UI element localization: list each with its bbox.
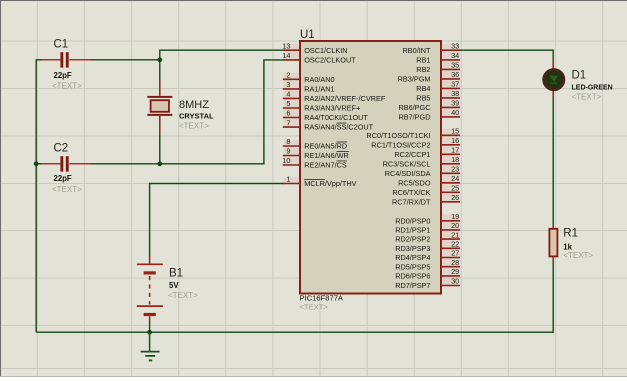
microcontroller U1 PIC16F877A xyxy=(300,29,442,312)
svg-text:38: 38 xyxy=(451,89,459,98)
svg-text:RD2/PSP2: RD2/PSP2 xyxy=(395,235,430,244)
svg-text:22: 22 xyxy=(451,240,459,249)
LED D1 xyxy=(544,62,613,101)
capacitor C2 xyxy=(42,143,91,194)
junction dot battery / rail / ground xyxy=(147,330,152,335)
svg-text:MCLR/Vpp/THV: MCLR/Vpp/THV xyxy=(304,179,356,188)
wire C2 left stub to left rail xyxy=(36,163,43,165)
junction dot crystal top / C1 xyxy=(157,57,162,62)
svg-text:15: 15 xyxy=(451,127,459,136)
svg-text:<TEXT>: <TEXT> xyxy=(52,82,82,91)
svg-text:D1: D1 xyxy=(572,70,587,82)
svg-text:26: 26 xyxy=(451,193,459,202)
svg-text:<TEXT>: <TEXT> xyxy=(300,303,329,312)
svg-text:RC4/SDI/SDA: RC4/SDI/SDA xyxy=(385,169,431,178)
U1 right pin 35 RB2 xyxy=(416,61,460,74)
U1 left pin 4 RA2/AN2/VREF-/CVREF xyxy=(283,90,386,103)
U1 right pin 33 RB0/INT xyxy=(403,41,460,54)
svg-text:RC7/RX/DT: RC7/RX/DT xyxy=(392,197,431,206)
svg-text:<TEXT>: <TEXT> xyxy=(572,92,602,101)
svg-text:RB0/INT: RB0/INT xyxy=(403,46,432,55)
wire MCLR pin1 to battery top xyxy=(150,184,284,257)
svg-text:RB6/PGC: RB6/PGC xyxy=(398,103,430,112)
U1 left pin 13 OSC1/CLKIN xyxy=(282,41,347,54)
battery B1 xyxy=(137,256,198,322)
svg-text:RE2/AN7/CS: RE2/AN7/CS xyxy=(304,161,347,170)
svg-text:37: 37 xyxy=(451,80,459,89)
svg-text:<TEXT>: <TEXT> xyxy=(52,185,82,194)
svg-text:RD0/PSP0: RD0/PSP0 xyxy=(395,216,430,225)
svg-text:LED-GREEN: LED-GREEN xyxy=(572,84,613,91)
svg-text:RC0/T1OSO/T1CKI: RC0/T1OSO/T1CKI xyxy=(366,131,430,140)
resistor R1 xyxy=(549,225,593,261)
U1 right pin 17 RC2/CCP1 xyxy=(394,146,460,159)
wire C2 right to OSC2 pin 14 xyxy=(90,60,284,164)
U1 left pin 8 RE0/AN5/RD xyxy=(283,137,347,150)
U1 right pin 16 RC1/T1OSI/CCP2 xyxy=(371,136,460,149)
svg-text:27: 27 xyxy=(451,249,459,258)
U1 left pin 2 RA0/AN0 xyxy=(283,71,335,84)
svg-text:RE0/AN5/RD: RE0/AN5/RD xyxy=(304,142,347,151)
svg-text:7: 7 xyxy=(286,118,290,127)
svg-text:23: 23 xyxy=(451,165,459,174)
wire crystal bottom lead xyxy=(159,133,161,164)
svg-text:33: 33 xyxy=(451,41,459,50)
svg-text:2: 2 xyxy=(286,71,290,80)
U1 right pin 23 RC4/SDI/SDA xyxy=(385,165,460,178)
svg-text:16: 16 xyxy=(451,136,459,145)
wire bottom ground rail xyxy=(36,261,553,332)
U1 right pin 36 RB3/PGM xyxy=(398,70,460,83)
svg-text:35: 35 xyxy=(451,61,459,70)
U1 right pin 15 RC0/T1OSO/T1CKI xyxy=(366,127,460,140)
svg-text:14: 14 xyxy=(282,51,290,60)
svg-text:<TEXT>: <TEXT> xyxy=(563,251,593,260)
svg-text:RC1/T1OSI/CCP2: RC1/T1OSI/CCP2 xyxy=(371,140,430,149)
U1 right pin 37 RB4 xyxy=(416,80,460,93)
svg-text:RB1: RB1 xyxy=(416,56,430,65)
U1 right pin 30 RD7/PSP7 xyxy=(395,277,460,290)
svg-text:RD4/PSP4: RD4/PSP4 xyxy=(395,253,430,262)
svg-text:RC2/CCP1: RC2/CCP1 xyxy=(394,150,430,159)
capacitor C1 xyxy=(42,39,91,91)
svg-text:3: 3 xyxy=(286,80,290,89)
svg-text:RB2: RB2 xyxy=(416,65,430,74)
svg-text:24: 24 xyxy=(451,174,459,183)
ground xyxy=(141,332,160,360)
svg-text:RC3/SCK/SCL: RC3/SCK/SCL xyxy=(383,159,431,168)
svg-text:C2: C2 xyxy=(54,143,69,155)
U1 left pin 10 RE2/AN7/CS xyxy=(282,156,347,169)
U1 right pin 34 RB1 xyxy=(416,51,460,64)
U1 left pin 1 MCLR/Vpp/THV xyxy=(283,175,357,188)
svg-text:10: 10 xyxy=(282,156,290,165)
svg-text:19: 19 xyxy=(451,212,459,221)
wire C1 right to crystal-top junction xyxy=(90,59,160,61)
U1 right pin 20 RD1/PSP1 xyxy=(395,221,460,234)
svg-text:RD3/PSP3: RD3/PSP3 xyxy=(395,244,430,253)
svg-text:RB3/PGM: RB3/PGM xyxy=(398,75,431,84)
U1 left pin 7 RA5/AN4/SS/C2OUT xyxy=(283,118,374,131)
svg-text:RD5/PSP5: RD5/PSP5 xyxy=(395,262,430,271)
svg-text:20: 20 xyxy=(451,221,459,230)
svg-text:5: 5 xyxy=(286,99,290,108)
svg-text:RA1/AN1: RA1/AN1 xyxy=(304,85,334,94)
svg-text:RC5/SDO: RC5/SDO xyxy=(398,178,431,187)
svg-text:<TEXT>: <TEXT> xyxy=(179,121,209,130)
svg-text:13: 13 xyxy=(282,41,290,50)
U1 right pin 38 RB5 xyxy=(416,89,460,102)
svg-text:RB4: RB4 xyxy=(416,84,430,93)
svg-text:RA4/T0CKI/C1OUT: RA4/T0CKI/C1OUT xyxy=(304,113,368,122)
svg-text:9: 9 xyxy=(286,147,290,156)
svg-text:39: 39 xyxy=(451,99,459,108)
svg-text:22pF: 22pF xyxy=(54,71,72,80)
wire junction jog up to OSC1 pin 13 xyxy=(160,50,284,60)
svg-text:18: 18 xyxy=(451,155,459,164)
wire C1 left corner xyxy=(36,60,43,332)
U1 left pin 9 RE1/AN6/WR xyxy=(283,147,349,160)
U1 right pin 27 RD4/PSP4 xyxy=(395,249,460,262)
svg-text:RB5: RB5 xyxy=(416,94,430,103)
svg-text:25: 25 xyxy=(451,184,459,193)
svg-text:RC6/TX/CK: RC6/TX/CK xyxy=(392,188,430,197)
crystal X1 8MHZ xyxy=(147,79,214,133)
svg-text:RA5/AN4/SS/C2OUT: RA5/AN4/SS/C2OUT xyxy=(304,123,373,132)
U1 right pin 21 RD2/PSP2 xyxy=(395,230,460,243)
wire RB0 pin33 to LED xyxy=(460,50,554,62)
svg-text:C1: C1 xyxy=(54,39,69,51)
svg-text:RE1/AN6/WR: RE1/AN6/WR xyxy=(304,151,349,160)
svg-text:40: 40 xyxy=(451,108,459,117)
U1 left pin 3 RA1/AN1 xyxy=(283,80,335,93)
junction dot C2 left rail xyxy=(34,161,39,166)
U1 right pin 18 RC3/SCK/SCL xyxy=(383,155,460,168)
U1 right pin 24 RC5/SDO xyxy=(398,174,460,187)
svg-text:RD1/PSP1: RD1/PSP1 xyxy=(395,226,430,235)
U1 left pin 5 RA3/AN3/VREF+ xyxy=(283,99,361,112)
svg-text:RD7/PSP7: RD7/PSP7 xyxy=(395,281,430,290)
junction dot crystal bottom / C2 xyxy=(157,161,162,166)
wire battery bottom to rail xyxy=(149,321,151,332)
svg-text:<TEXT>: <TEXT> xyxy=(168,291,198,300)
svg-text:RB7/PGD: RB7/PGD xyxy=(398,113,430,122)
svg-text:6: 6 xyxy=(286,109,290,118)
svg-text:8MHZ: 8MHZ xyxy=(179,99,209,111)
svg-text:36: 36 xyxy=(451,70,459,79)
svg-text:RD6/PSP6: RD6/PSP6 xyxy=(395,272,430,281)
svg-text:RA3/AN3/VREF+: RA3/AN3/VREF+ xyxy=(304,104,360,113)
wire LED to R1 xyxy=(552,96,554,225)
U1 left pin 14 OSC2/CLKOUT xyxy=(282,51,356,64)
U1 right pin 40 RB7/PGD xyxy=(398,108,460,121)
svg-text:30: 30 xyxy=(451,277,459,286)
U1 right pin 25 RC6/TX/CK xyxy=(392,184,460,197)
svg-text:4: 4 xyxy=(286,90,290,99)
svg-text:PIC16F877A: PIC16F877A xyxy=(300,294,344,303)
svg-text:29: 29 xyxy=(451,267,459,276)
U1 right pin 29 RD6/PSP6 xyxy=(395,267,460,280)
svg-text:R1: R1 xyxy=(563,228,578,240)
svg-text:U1: U1 xyxy=(300,29,315,41)
svg-text:OSC2/CLKOUT: OSC2/CLKOUT xyxy=(304,56,356,65)
svg-text:22pF: 22pF xyxy=(54,174,72,183)
svg-text:5V: 5V xyxy=(169,281,179,290)
svg-text:RA0/AN0: RA0/AN0 xyxy=(304,75,334,84)
svg-text:34: 34 xyxy=(451,51,459,60)
svg-text:17: 17 xyxy=(451,146,459,155)
svg-text:28: 28 xyxy=(451,258,459,267)
U1 right pin 22 RD3/PSP3 xyxy=(395,240,460,253)
U1 right pin 26 RC7/RX/DT xyxy=(392,193,460,206)
svg-text:OSC1/CLKIN: OSC1/CLKIN xyxy=(304,46,347,55)
svg-text:RA2/AN2/VREF-/CVREF: RA2/AN2/VREF-/CVREF xyxy=(304,94,386,103)
wire crystal top lead xyxy=(159,60,161,79)
U1 right pin 28 RD5/PSP5 xyxy=(395,258,460,271)
svg-text:8: 8 xyxy=(286,137,290,146)
svg-text:B1: B1 xyxy=(169,267,183,279)
U1 right pin 19 RD0/PSP0 xyxy=(395,212,460,225)
svg-text:21: 21 xyxy=(451,230,459,239)
svg-text:CRYSTAL: CRYSTAL xyxy=(179,111,214,120)
U1 left pin 6 RA4/T0CKI/C1OUT xyxy=(283,109,369,122)
U1 right pin 39 RB6/PGC xyxy=(398,99,460,112)
svg-text:1: 1 xyxy=(286,175,290,184)
